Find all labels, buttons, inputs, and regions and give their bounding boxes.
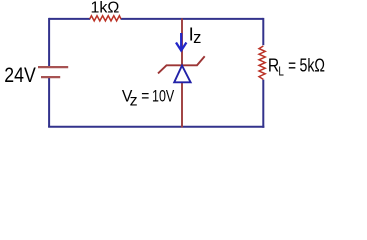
wire top-right horizontal segment [121,18,264,20]
wire bottom horizontal [48,126,264,128]
svg-text:z: z [130,92,138,109]
svg-text:24V: 24V [4,64,36,87]
svg-text:5kΩ: 5kΩ [300,56,326,76]
battery 24V: short plate [41,76,60,78]
svg-text:z: z [193,29,201,47]
wire left vertical upper (battery top) [48,18,50,66]
current arrow Iz shaft [180,33,182,50]
battery 24V: long plate [38,66,68,68]
svg-text:10V: 10V [152,86,175,105]
svg-text:=: = [141,86,149,105]
zener diode triangle [174,66,190,83]
wire right vertical upper [262,18,264,45]
svg-text:=: = [288,56,296,76]
zener diode cathode bar with bent ends [158,56,205,73]
svg-text:L: L [278,63,284,78]
wire top-left horizontal segment [49,18,90,20]
svg-text:1kΩ: 1kΩ [91,0,120,17]
resistor 1kΩ (zigzag on top wire) [90,16,121,21]
wire zener vertical upper (red) [181,18,183,64]
current arrow Iz head [176,43,186,51]
wire zener vertical lower (red) [181,83,183,128]
wire left vertical lower (battery bottom) [48,78,50,127]
wire right vertical lower [262,80,264,128]
resistor RL (zigzag on right wire) [259,46,265,79]
